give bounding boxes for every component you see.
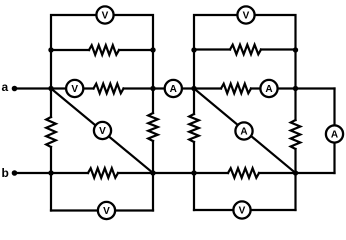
wire a-line: node A1 to resistor R2	[51, 87, 94, 89]
wire b-line: node B3 to resistor R6	[194, 172, 228, 174]
svg-text:V: V	[71, 84, 78, 95]
resistor R10	[291, 120, 301, 149]
junction node T4	[293, 47, 298, 52]
resistor R7	[46, 117, 56, 147]
svg-text:V: V	[239, 205, 246, 216]
voltmeter V4 circle	[98, 202, 115, 219]
svg-text:A: A	[170, 84, 177, 95]
wire a-line: resistor R4 to node A4 through ammeter A2	[251, 87, 296, 89]
voltmeter V2 circle	[66, 80, 83, 97]
junction node A2	[150, 86, 155, 91]
voltmeter V5 circle	[237, 6, 254, 23]
junction node B4	[293, 170, 298, 175]
svg-text:V: V	[99, 126, 106, 137]
wire b-line: node B4 to right loop bottom	[296, 172, 335, 174]
junction node T1	[48, 47, 53, 52]
resistor R3	[230, 45, 261, 55]
resistor R8	[148, 113, 158, 141]
wire right block bottom loop with voltmeter V6	[194, 209, 296, 211]
svg-text:b: b	[2, 166, 9, 180]
wire row2 left: node T1 to resistor R1	[51, 49, 89, 51]
wire row2 right: resistor R3 to node T4	[261, 48, 296, 50]
terminal b dot	[12, 170, 18, 176]
voltmeter V1 circle	[96, 6, 113, 23]
wire left block left lower vertical	[50, 147, 52, 211]
junction node A4	[293, 86, 298, 91]
junction node A1	[48, 86, 53, 91]
junction node T3	[191, 47, 196, 52]
ammeter A3 circle	[235, 122, 252, 139]
resistor R4	[221, 84, 251, 94]
junction node T2	[150, 47, 155, 52]
svg-text:V: V	[102, 10, 109, 21]
junction node A3	[191, 86, 196, 91]
resistor R2	[94, 84, 124, 94]
ammeter A2 circle	[260, 80, 277, 97]
wire b-line: resistor R5 to node B2	[118, 172, 153, 174]
resistor R1	[89, 45, 119, 55]
svg-text:A: A	[265, 84, 272, 95]
svg-text:V: V	[103, 206, 110, 217]
resistor R9	[189, 114, 199, 142]
wire a-line: terminal a to node A1	[15, 87, 52, 89]
wire left block right lower vertical	[152, 141, 154, 211]
wire right block top side with voltmeter V5	[194, 15, 296, 120]
wire a-line: resistor R2 to node A2	[124, 87, 154, 89]
wire a-line: node A3 to resistor R4	[194, 87, 221, 89]
wire b-line: node B2 to node B3	[153, 172, 194, 174]
wire far-right branch vertical with ammeter A4	[333, 89, 335, 174]
wire a-line: node A4 to right loop top	[296, 87, 335, 89]
svg-text:A: A	[331, 129, 338, 140]
ammeter A1 circle	[165, 80, 182, 97]
ammeter A4 circle	[326, 125, 343, 142]
junction node B3	[191, 170, 196, 175]
voltmeter V6 circle	[233, 201, 250, 218]
junction node B2	[150, 170, 155, 175]
wire right block right lower vertical	[294, 149, 296, 210]
wire left diagonal with voltmeter V3	[51, 89, 153, 174]
wire b-line: terminal b to node B1	[15, 172, 52, 174]
wire b-line: resistor R6 to node B4	[259, 172, 296, 174]
wire row2 right: node T3 to resistor R3	[194, 48, 230, 50]
junction node B1	[48, 170, 53, 175]
wire b-line: node B1 to resistor R5	[51, 172, 88, 174]
svg-text:a: a	[2, 80, 9, 94]
svg-text:V: V	[243, 10, 250, 21]
wire a-line: node A2 to node A3 through ammeter A1	[153, 87, 194, 89]
wire left block bottom loop with voltmeter V4	[51, 209, 153, 211]
wire right diagonal with ammeter A3	[194, 89, 296, 174]
voltmeter V3 circle	[94, 122, 111, 139]
wire row2 left: resistor R1 to node T2	[119, 49, 153, 51]
wire right block left lower vertical	[193, 142, 195, 210]
resistor R6	[228, 168, 259, 178]
terminal a dot	[12, 86, 18, 92]
resistor R5	[88, 168, 118, 178]
svg-text:A: A	[240, 126, 247, 137]
wire left block top side with voltmeter V1	[51, 15, 153, 117]
